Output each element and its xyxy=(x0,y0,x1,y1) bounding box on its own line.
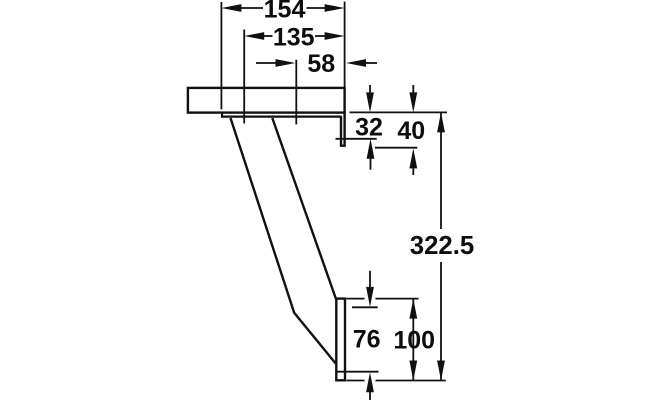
svg-text:76: 76 xyxy=(353,325,381,353)
svg-text:154: 154 xyxy=(264,0,306,24)
svg-text:40: 40 xyxy=(397,117,425,145)
svg-text:32: 32 xyxy=(355,114,383,142)
svg-text:58: 58 xyxy=(307,50,335,78)
svg-text:100: 100 xyxy=(393,327,435,355)
svg-text:322.5: 322.5 xyxy=(410,232,475,260)
svg-text:135: 135 xyxy=(273,23,315,51)
